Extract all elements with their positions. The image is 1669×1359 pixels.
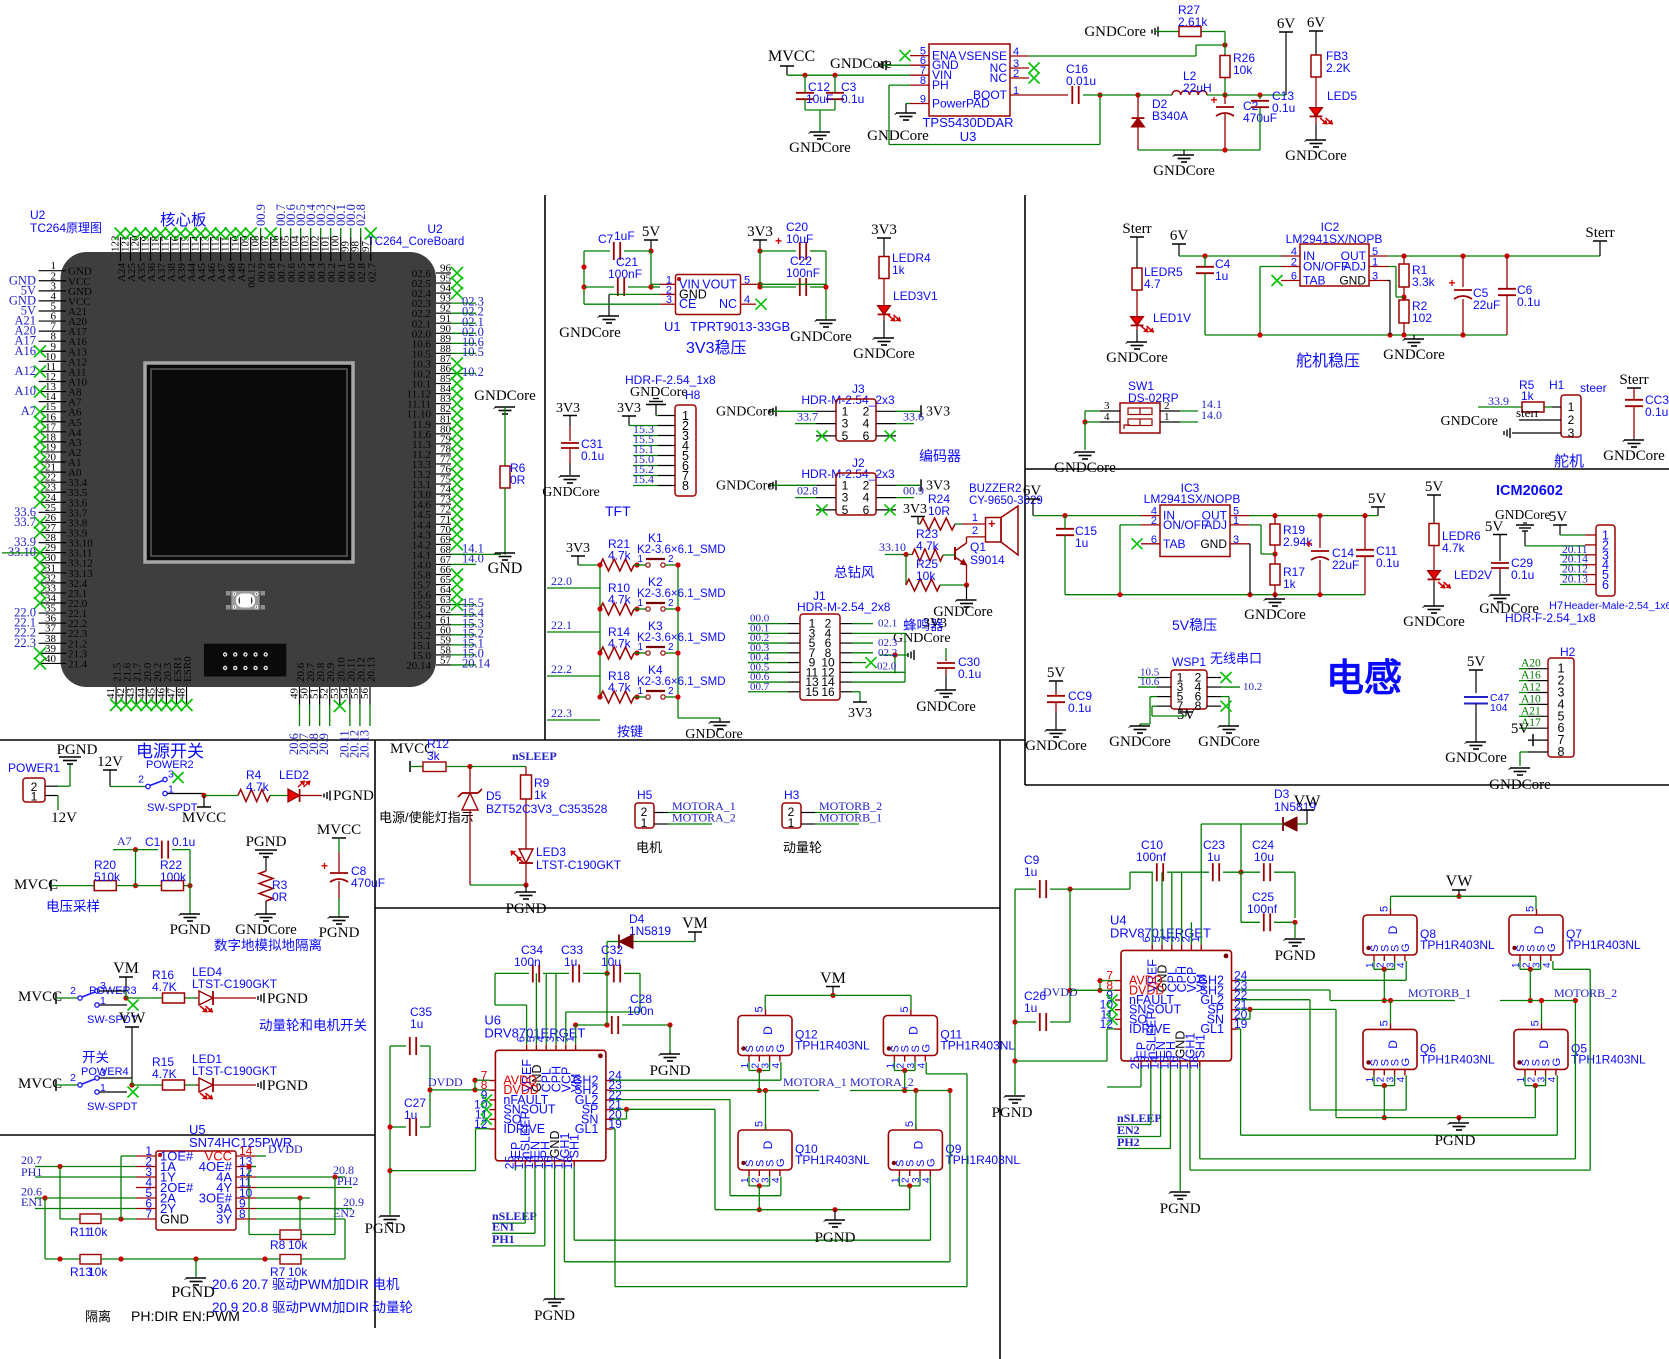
svg-text:MVCC: MVCC — [317, 822, 361, 838]
svg-text:0.1u: 0.1u — [581, 449, 604, 463]
svg-text:20.13: 20.13 — [357, 730, 371, 758]
svg-text:3: 3 — [1372, 271, 1378, 283]
svg-text:GNDCore: GNDCore — [1440, 414, 1498, 429]
svg-text:ESR0: ESR0 — [182, 656, 194, 682]
svg-text:SW-SPDT: SW-SPDT — [87, 1101, 138, 1113]
svg-text:G: G — [775, 1158, 787, 1167]
svg-text:MOTORB_2: MOTORB_2 — [1554, 986, 1617, 1000]
svg-text:D: D — [906, 1026, 920, 1035]
svg-text:H2: H2 — [1560, 645, 1576, 659]
svg-text:GNDCore: GNDCore — [1445, 750, 1507, 766]
svg-text:5: 5 — [1379, 1020, 1391, 1026]
svg-text:PGND: PGND — [171, 1284, 215, 1301]
svg-text:TFT: TFT — [605, 503, 631, 519]
svg-text:2.2K: 2.2K — [1326, 61, 1351, 75]
svg-text:H8: H8 — [685, 388, 701, 402]
svg-text:0.1u: 0.1u — [958, 667, 981, 681]
svg-text:20.9 20.8 驱动PWM加DIR 动量轮: 20.9 20.8 驱动PWM加DIR 动量轮 — [212, 1300, 413, 1315]
svg-text:10.5: 10.5 — [462, 345, 484, 359]
svg-text:U2: U2 — [427, 222, 443, 236]
svg-text:A20: A20 — [1521, 658, 1541, 670]
svg-text:1: 1 — [788, 816, 795, 830]
svg-text:21.4: 21.4 — [68, 658, 88, 670]
svg-text:104: 104 — [1490, 702, 1508, 714]
svg-text:100n: 100n — [514, 955, 541, 969]
svg-text:GND: GND — [488, 560, 523, 577]
svg-text:22.3: 22.3 — [551, 706, 572, 720]
svg-text:PGND: PGND — [333, 788, 374, 804]
svg-text:02.7: 02.7 — [366, 263, 378, 283]
svg-text:4.7k: 4.7k — [608, 681, 632, 695]
svg-text:GL1: GL1 — [1200, 1022, 1224, 1036]
svg-text:PGND: PGND — [57, 742, 98, 758]
svg-text:20.14: 20.14 — [406, 660, 431, 672]
svg-text:1u: 1u — [1024, 865, 1037, 879]
svg-text:0.1u: 0.1u — [1068, 701, 1091, 715]
svg-text:LED3V1: LED3V1 — [893, 289, 938, 303]
svg-text:C7: C7 — [598, 232, 614, 246]
svg-text:4: 4 — [744, 294, 750, 306]
svg-text:动量轮和电机开关: 动量轮和电机开关 — [259, 1018, 367, 1033]
svg-text:LTST-C190GKT: LTST-C190GKT — [192, 1064, 278, 1078]
svg-text:4.7K: 4.7K — [152, 980, 177, 994]
svg-text:12V: 12V — [51, 810, 77, 826]
svg-text:HDR-F-2.54_1x8: HDR-F-2.54_1x8 — [1505, 611, 1596, 625]
svg-text:97: 97 — [360, 241, 372, 253]
svg-text:5: 5 — [1525, 906, 1537, 912]
svg-text:0.01u: 0.01u — [1066, 74, 1096, 88]
svg-text:U2: U2 — [30, 208, 46, 222]
svg-text:A12: A12 — [1521, 682, 1541, 694]
svg-text:2: 2 — [1568, 413, 1575, 427]
svg-text:DVDD: DVDD — [1043, 985, 1078, 999]
svg-text:编码器: 编码器 — [919, 448, 961, 464]
svg-text:15: 15 — [805, 685, 819, 699]
svg-text:+: + — [988, 516, 996, 531]
svg-text:5: 5 — [842, 429, 849, 443]
svg-text:PGND: PGND — [534, 1308, 575, 1324]
svg-text:1u: 1u — [410, 1017, 423, 1031]
svg-text:5V: 5V — [1047, 665, 1066, 681]
svg-text:16: 16 — [821, 685, 835, 699]
svg-text:开关: 开关 — [82, 1050, 109, 1065]
svg-text:LM2941SX/NOPB: LM2941SX/NOPB — [1286, 232, 1383, 246]
svg-text:4.7: 4.7 — [1144, 277, 1161, 291]
svg-text:10k: 10k — [1233, 63, 1253, 77]
svg-text:02.8: 02.8 — [354, 204, 368, 226]
svg-text:4: 4 — [1396, 962, 1407, 968]
svg-text:MOTORA_2: MOTORA_2 — [672, 811, 736, 825]
svg-text:GND: GND — [1200, 537, 1227, 551]
svg-text:GNDCore: GNDCore — [1403, 614, 1465, 630]
svg-text:PH:DIR EN:PWM: PH:DIR EN:PWM — [131, 1308, 240, 1324]
svg-text:GNDCore: GNDCore — [1489, 777, 1551, 793]
svg-text:1u: 1u — [1215, 269, 1228, 283]
svg-text:10u: 10u — [1254, 850, 1274, 864]
svg-text:PH: PH — [932, 78, 949, 92]
svg-text:D5: D5 — [486, 789, 502, 803]
svg-text:8: 8 — [682, 479, 689, 493]
svg-text:8: 8 — [1195, 699, 1202, 713]
svg-text:5V: 5V — [1549, 509, 1568, 525]
svg-text:6: 6 — [1151, 534, 1157, 546]
svg-text:6V: 6V — [1307, 15, 1326, 31]
svg-text:电源/使能灯指示: 电源/使能灯指示 — [379, 810, 474, 825]
svg-text:MOTORB_1: MOTORB_1 — [819, 811, 882, 825]
svg-text:33.7: 33.7 — [14, 515, 36, 529]
svg-text:5V: 5V — [1425, 479, 1444, 495]
svg-text:GNDCore: GNDCore — [1109, 734, 1171, 750]
svg-text:102: 102 — [1412, 311, 1432, 325]
svg-text:22uF: 22uF — [1332, 558, 1359, 572]
svg-text:1: 1 — [641, 816, 648, 830]
svg-text:0R: 0R — [272, 890, 288, 904]
svg-text:3k: 3k — [427, 749, 441, 763]
svg-text:D: D — [911, 1140, 925, 1149]
svg-text:1u: 1u — [1075, 536, 1088, 550]
svg-text:TPH1R403NL: TPH1R403NL — [1420, 1052, 1495, 1066]
svg-text:G: G — [1551, 1058, 1563, 1067]
svg-text:4: 4 — [1104, 411, 1110, 423]
svg-text:3V3: 3V3 — [556, 401, 580, 416]
svg-text:1: 1 — [1233, 515, 1239, 527]
svg-text:5V: 5V — [1467, 654, 1486, 670]
svg-text:BOOT: BOOT — [973, 88, 1008, 102]
svg-text:PGND: PGND — [815, 1230, 856, 1246]
svg-text:PGND: PGND — [246, 834, 287, 850]
svg-text:8: 8 — [1558, 745, 1565, 759]
svg-text:100nf: 100nf — [1247, 902, 1278, 916]
svg-text:EN1: EN1 — [21, 1195, 43, 1209]
svg-text:nSLEEP: nSLEEP — [512, 749, 557, 763]
svg-text:5: 5 — [744, 274, 750, 286]
svg-text:2: 2 — [1151, 515, 1157, 527]
svg-text:1: 1 — [1013, 85, 1019, 97]
svg-text:3: 3 — [100, 1067, 106, 1079]
svg-text:6V: 6V — [1277, 16, 1296, 32]
svg-text:10k: 10k — [916, 569, 936, 583]
svg-text:14.0: 14.0 — [462, 551, 484, 565]
svg-text:GNDCore: GNDCore — [916, 699, 976, 715]
svg-text:100k: 100k — [160, 870, 187, 884]
svg-text:NC: NC — [719, 297, 737, 311]
svg-text:VM: VM — [682, 915, 708, 932]
svg-text:10k: 10k — [88, 1225, 108, 1239]
svg-text:8: 8 — [239, 1207, 246, 1221]
svg-text:470uF: 470uF — [351, 876, 385, 890]
svg-text:00.9: 00.9 — [903, 484, 924, 498]
svg-text:100n: 100n — [627, 1004, 654, 1018]
svg-text:1: 1 — [31, 790, 38, 804]
svg-text:5V: 5V — [642, 224, 661, 240]
svg-text:1k: 1k — [892, 263, 906, 277]
svg-text:GNDCore: GNDCore — [559, 325, 621, 341]
svg-text:6: 6 — [1291, 271, 1297, 283]
svg-text:G: G — [1546, 943, 1558, 952]
svg-text:H5: H5 — [637, 788, 653, 802]
svg-text:SH1: SH1 — [1193, 1034, 1207, 1058]
svg-text:MVCC: MVCC — [768, 48, 815, 65]
svg-text:PH2: PH2 — [337, 1174, 358, 1188]
svg-text:GNDCore: GNDCore — [853, 346, 915, 362]
svg-text:G: G — [925, 1158, 937, 1167]
svg-text:TPRT9013-33GB: TPRT9013-33GB — [690, 319, 790, 334]
svg-text:LED1V: LED1V — [1153, 311, 1191, 325]
svg-text:A10: A10 — [1521, 693, 1541, 705]
svg-text:GNDCore: GNDCore — [1244, 607, 1306, 623]
svg-text:GNDCore: GNDCore — [1054, 460, 1116, 476]
svg-text:0.1u: 0.1u — [172, 835, 195, 849]
svg-text:02.0: 02.0 — [877, 661, 897, 673]
svg-text:G: G — [920, 1044, 932, 1053]
svg-text:NC: NC — [990, 71, 1008, 85]
svg-text:1uF: 1uF — [614, 229, 635, 243]
svg-text:PGND: PGND — [170, 922, 211, 938]
svg-text:TPH1R403NL: TPH1R403NL — [795, 1153, 870, 1167]
svg-text:TPH1R403NL: TPH1R403NL — [940, 1039, 1015, 1053]
svg-text:22.0: 22.0 — [551, 574, 572, 588]
svg-text:0.1u: 0.1u — [1376, 556, 1399, 570]
svg-text:20.6 20.7 驱动PWM加DIR 电机: 20.6 20.7 驱动PWM加DIR 电机 — [212, 1277, 400, 1292]
svg-text:steer: steer — [1580, 381, 1607, 395]
svg-text:H1: H1 — [1549, 378, 1565, 392]
svg-text:GNDCore: GNDCore — [1495, 507, 1551, 522]
svg-text:3V3稳压: 3V3稳压 — [686, 339, 746, 357]
svg-text:3: 3 — [666, 294, 672, 306]
svg-text:20.9: 20.9 — [317, 733, 331, 755]
svg-text:33.10: 33.10 — [879, 540, 906, 554]
svg-text:GNDCore: GNDCore — [630, 385, 688, 400]
svg-text:4: 4 — [1013, 46, 1019, 58]
svg-text:+: + — [1305, 537, 1312, 551]
svg-text:14.0: 14.0 — [1201, 408, 1222, 422]
svg-text:3: 3 — [168, 769, 174, 781]
svg-text:GNDCore: GNDCore — [790, 329, 852, 345]
svg-text:22.3: 22.3 — [14, 636, 36, 650]
svg-text:3Y: 3Y — [216, 1212, 232, 1227]
svg-text:A10: A10 — [14, 384, 36, 398]
svg-text:GNDCore: GNDCore — [1025, 738, 1087, 754]
svg-text:A21: A21 — [1521, 705, 1541, 717]
svg-text:5: 5 — [904, 1121, 916, 1127]
svg-text:8: 8 — [920, 75, 926, 87]
svg-text:4: 4 — [1542, 962, 1553, 968]
svg-text:PH1: PH1 — [492, 1232, 515, 1246]
svg-text:R8: R8 — [270, 1238, 286, 1252]
svg-text:5: 5 — [1379, 906, 1391, 912]
svg-text:MOTORB_1: MOTORB_1 — [1408, 986, 1471, 1000]
svg-text:D3: D3 — [1274, 787, 1290, 801]
svg-text:LED3: LED3 — [536, 845, 566, 859]
svg-text:动量轮: 动量轮 — [783, 840, 822, 855]
svg-text:1N5819: 1N5819 — [629, 924, 671, 938]
svg-text:0.1u: 0.1u — [1645, 405, 1668, 419]
svg-text:0.1u: 0.1u — [1511, 568, 1534, 582]
svg-text:GND: GND — [160, 1212, 189, 1227]
svg-text:DVDD: DVDD — [428, 1075, 463, 1089]
svg-text:sterr: sterr — [1516, 405, 1540, 420]
svg-text:02.1: 02.1 — [878, 618, 897, 630]
svg-text:48: 48 — [176, 688, 188, 700]
svg-text:+: + — [321, 859, 328, 873]
svg-text:LM2941SX/NOPB: LM2941SX/NOPB — [1144, 492, 1241, 506]
svg-text:K3: K3 — [648, 619, 663, 633]
svg-text:GNDCore: GNDCore — [1084, 24, 1146, 40]
svg-text:POWER1: POWER1 — [8, 761, 60, 775]
svg-text:10.2: 10.2 — [1243, 681, 1262, 693]
svg-text:02.2: 02.2 — [878, 647, 897, 659]
svg-text:GNDCore: GNDCore — [867, 128, 929, 144]
svg-text:GNDCore: GNDCore — [474, 388, 536, 404]
svg-text:4.7k: 4.7k — [1442, 541, 1466, 555]
svg-text:TAB: TAB — [1163, 537, 1185, 551]
svg-text:2: 2 — [1291, 257, 1297, 269]
svg-text:5V稳压: 5V稳压 — [1172, 617, 1217, 633]
svg-text:3V3: 3V3 — [871, 222, 897, 238]
svg-text:33.7: 33.7 — [797, 410, 818, 424]
svg-text:2: 2 — [70, 1072, 76, 1084]
svg-text:22.2: 22.2 — [551, 662, 572, 676]
svg-text:20.14: 20.14 — [462, 656, 491, 670]
svg-text:10uF: 10uF — [806, 92, 833, 106]
svg-text:G: G — [1400, 1058, 1412, 1067]
svg-text:ADJ: ADJ — [1204, 518, 1227, 532]
svg-text:PH1: PH1 — [21, 1165, 42, 1179]
svg-text:HDR-M-2.54_2x8: HDR-M-2.54_2x8 — [797, 600, 891, 614]
svg-text:100nF: 100nF — [786, 266, 820, 280]
svg-text:D: D — [1537, 1040, 1551, 1049]
svg-text:GNDCore: GNDCore — [1285, 148, 1347, 164]
svg-text:6: 6 — [1602, 578, 1609, 592]
svg-text:33.9: 33.9 — [1488, 394, 1509, 408]
svg-text:40: 40 — [45, 653, 57, 665]
svg-text:隔离: 隔离 — [85, 1309, 111, 1324]
svg-text:7: 7 — [145, 1207, 152, 1221]
svg-text:PGND: PGND — [650, 1063, 691, 1079]
svg-text:WSP1: WSP1 — [1172, 655, 1206, 669]
svg-text:10k: 10k — [88, 1265, 108, 1279]
svg-text:6: 6 — [863, 429, 870, 443]
svg-text:LED2V: LED2V — [1454, 568, 1492, 582]
svg-text:GNDCore: GNDCore — [789, 140, 851, 156]
svg-text:DVDD: DVDD — [268, 1142, 303, 1156]
svg-text:0R: 0R — [510, 473, 526, 487]
svg-text:1u: 1u — [1024, 1001, 1037, 1015]
svg-text:+: + — [775, 234, 782, 248]
svg-text:TPH1R403NL: TPH1R403NL — [1571, 1052, 1646, 1066]
svg-text:TPH1R403NL: TPH1R403NL — [1420, 938, 1495, 952]
svg-text:6: 6 — [863, 503, 870, 517]
svg-text:3V3: 3V3 — [566, 541, 590, 556]
svg-text:1k: 1k — [1283, 577, 1297, 591]
svg-text:ADJ: ADJ — [1343, 260, 1366, 274]
svg-text:15.4: 15.4 — [633, 472, 654, 486]
svg-text:1: 1 — [1372, 257, 1378, 269]
svg-text:TPH1R403NL: TPH1R403NL — [795, 1039, 870, 1053]
svg-text:VW: VW — [119, 1010, 147, 1027]
svg-text:0.1u: 0.1u — [1517, 295, 1540, 309]
svg-text:U3: U3 — [960, 129, 977, 144]
svg-text:GNDCore: GNDCore — [1383, 347, 1445, 363]
svg-text:PGND: PGND — [319, 925, 360, 941]
svg-text:A16: A16 — [1521, 670, 1541, 682]
svg-text:U1: U1 — [664, 319, 681, 334]
svg-text:Sterr: Sterr — [1585, 225, 1614, 241]
svg-text:LED2: LED2 — [279, 768, 309, 782]
svg-text:1: 1 — [972, 512, 978, 524]
svg-text:BUZZER2: BUZZER2 — [969, 483, 1021, 495]
svg-text:0.1u: 0.1u — [1272, 101, 1295, 115]
svg-text:1: 1 — [1164, 411, 1170, 423]
svg-text:GNDCore: GNDCore — [685, 727, 743, 742]
svg-text:LED5: LED5 — [1327, 89, 1357, 103]
svg-text:无线串口: 无线串口 — [1210, 651, 1262, 666]
svg-text:D: D — [1532, 925, 1546, 934]
svg-text:D: D — [1386, 925, 1400, 934]
svg-text:MOTORA_1: MOTORA_1 — [783, 1075, 847, 1089]
svg-text:57: 57 — [440, 654, 452, 666]
svg-text:TPS5430DDAR: TPS5430DDAR — [922, 115, 1013, 130]
svg-text:K2-3.6×6.1_SMD: K2-3.6×6.1_SMD — [637, 588, 726, 600]
svg-text:10u: 10u — [601, 955, 621, 969]
svg-text:VM: VM — [820, 970, 846, 987]
svg-text:TC264_CoreBoard: TC264_CoreBoard — [368, 236, 465, 248]
svg-text:2: 2 — [138, 774, 144, 786]
svg-text:3: 3 — [1568, 426, 1575, 440]
svg-text:5: 5 — [754, 1121, 766, 1127]
svg-text:GNDCore: GNDCore — [716, 478, 774, 493]
svg-text:33.6: 33.6 — [903, 410, 924, 424]
svg-text:33.10: 33.10 — [8, 545, 36, 559]
svg-text:12V: 12V — [97, 754, 123, 770]
svg-text:5V: 5V — [1511, 721, 1530, 737]
svg-text:S9014: S9014 — [970, 553, 1005, 567]
svg-text:10.2: 10.2 — [462, 365, 484, 379]
svg-text:GNDCore: GNDCore — [1198, 734, 1260, 750]
svg-text:电机: 电机 — [636, 840, 662, 855]
svg-text:PGND: PGND — [1275, 948, 1316, 964]
svg-text:4.7k: 4.7k — [608, 593, 632, 607]
svg-text:22.1: 22.1 — [551, 618, 572, 632]
svg-text:+: + — [1448, 276, 1455, 290]
svg-text:56: 56 — [359, 688, 371, 700]
svg-text:2: 2 — [972, 525, 978, 537]
svg-text:Sterr: Sterr — [1619, 372, 1648, 388]
svg-text:4.7k: 4.7k — [608, 637, 632, 651]
svg-text:3: 3 — [100, 980, 106, 992]
svg-text:100nF: 100nF — [608, 267, 642, 281]
svg-text:GL1: GL1 — [575, 1122, 599, 1136]
svg-text:3: 3 — [1233, 534, 1239, 546]
svg-text:1k: 1k — [1521, 389, 1535, 403]
svg-text:ICM20602: ICM20602 — [1496, 483, 1563, 499]
svg-text:PGND: PGND — [1435, 1133, 1476, 1149]
svg-text:6V: 6V — [1170, 228, 1189, 244]
svg-text:G: G — [1400, 943, 1412, 952]
svg-text:510k: 510k — [94, 870, 121, 884]
svg-text:100nf: 100nf — [1136, 850, 1167, 864]
svg-text:1k: 1k — [534, 788, 548, 802]
svg-text:H3: H3 — [784, 788, 800, 802]
svg-text:VW: VW — [1294, 793, 1322, 810]
svg-text:舵机: 舵机 — [1554, 453, 1584, 470]
svg-text:3V3: 3V3 — [926, 404, 950, 419]
svg-text:10.6: 10.6 — [1140, 676, 1160, 688]
svg-text:4: 4 — [1396, 1076, 1407, 1082]
svg-text:2: 2 — [70, 985, 76, 997]
svg-text:GNDCore: GNDCore — [1106, 350, 1168, 366]
svg-text:3V3: 3V3 — [617, 401, 641, 416]
